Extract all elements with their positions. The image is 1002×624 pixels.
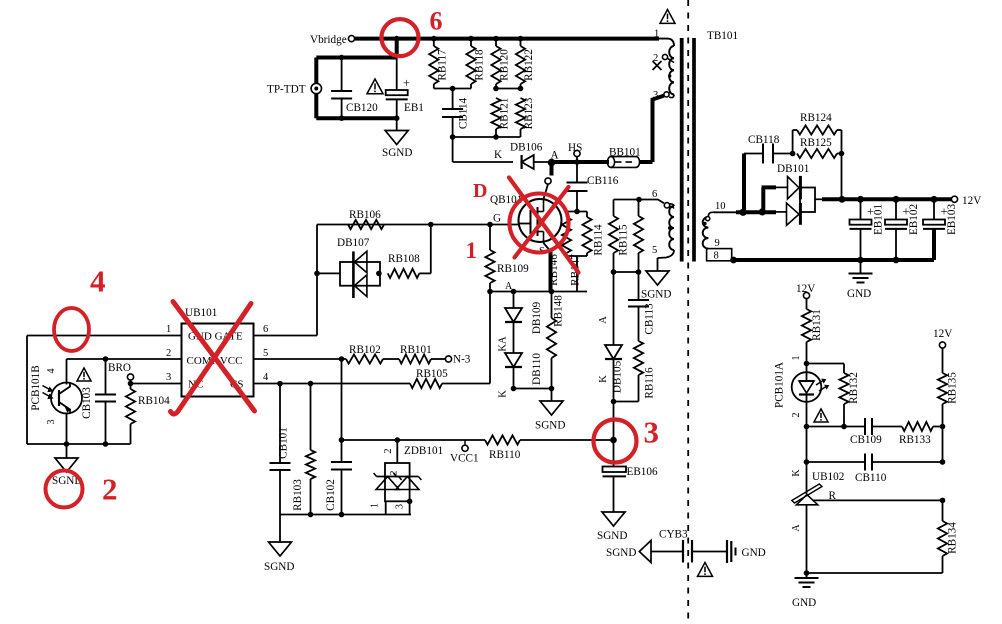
svg-text:RB102: RB102 <box>349 344 381 356</box>
svg-text:6: 6 <box>263 324 268 335</box>
svg-text:RB125: RB125 <box>800 137 832 149</box>
svg-text:RB148: RB148 <box>553 295 565 327</box>
svg-text:RB135: RB135 <box>947 372 959 404</box>
svg-text:VCC1: VCC1 <box>450 453 479 465</box>
svg-text:10: 10 <box>715 201 726 212</box>
svg-text:5: 5 <box>652 245 657 256</box>
svg-text:CB101: CB101 <box>278 427 290 459</box>
svg-text:GND: GND <box>847 288 871 300</box>
svg-text:2: 2 <box>383 449 394 454</box>
svg-text:KA: KA <box>498 336 509 352</box>
svg-text:D: D <box>473 180 487 202</box>
svg-text:2: 2 <box>166 348 171 359</box>
svg-text:EB103: EB103 <box>946 204 958 235</box>
svg-text:RB104: RB104 <box>138 395 170 407</box>
svg-text:2: 2 <box>791 413 802 418</box>
svg-text:RB133: RB133 <box>899 434 931 446</box>
svg-text:RB114: RB114 <box>593 224 605 256</box>
svg-text:DB106: DB106 <box>510 142 543 154</box>
svg-text:DB101: DB101 <box>777 163 809 175</box>
svg-text:EB101: EB101 <box>873 204 885 235</box>
svg-text:CB116: CB116 <box>587 175 619 187</box>
svg-text:DB107: DB107 <box>337 237 370 249</box>
svg-text:SGND: SGND <box>606 547 636 559</box>
svg-text:SGND: SGND <box>597 530 627 542</box>
svg-text:ZDB101: ZDB101 <box>404 445 443 457</box>
svg-text:RB123: RB123 <box>523 97 535 129</box>
svg-text:1: 1 <box>654 29 659 40</box>
svg-text:1: 1 <box>166 324 171 335</box>
svg-text:RB106: RB106 <box>349 209 381 221</box>
svg-text:SGND: SGND <box>264 561 294 573</box>
svg-text:RB134: RB134 <box>947 522 959 554</box>
svg-text:2: 2 <box>102 472 118 507</box>
svg-text:RB110: RB110 <box>489 449 521 461</box>
svg-text:RB117: RB117 <box>436 49 448 81</box>
svg-text:12V: 12V <box>933 328 952 340</box>
svg-text:6: 6 <box>430 7 443 36</box>
svg-text:CB118: CB118 <box>748 134 780 146</box>
svg-text:12V: 12V <box>962 195 981 207</box>
svg-text:DB110: DB110 <box>531 353 543 385</box>
svg-text:1: 1 <box>466 238 478 263</box>
svg-text:4: 4 <box>263 372 269 383</box>
svg-text:K: K <box>498 390 509 398</box>
svg-text:K: K <box>494 149 502 161</box>
svg-text:RB132: RB132 <box>848 372 860 404</box>
svg-text:GND: GND <box>792 597 816 609</box>
svg-text:SGND: SGND <box>382 147 412 159</box>
svg-text:5: 5 <box>263 348 268 359</box>
svg-text:9: 9 <box>715 238 720 249</box>
svg-text:3: 3 <box>46 420 57 425</box>
svg-text:CB114: CB114 <box>458 97 470 129</box>
svg-text:4: 4 <box>46 369 57 374</box>
svg-text:EB106: EB106 <box>627 466 658 478</box>
svg-text:EB102: EB102 <box>908 204 920 235</box>
svg-text:3: 3 <box>166 372 171 383</box>
svg-text:6: 6 <box>652 189 657 200</box>
svg-text:RB103: RB103 <box>292 479 304 511</box>
svg-text:RB101: RB101 <box>400 344 432 356</box>
svg-text:RB122: RB122 <box>523 49 535 81</box>
svg-text:8: 8 <box>714 251 719 262</box>
svg-text:RB109: RB109 <box>497 263 529 275</box>
svg-text:4: 4 <box>90 264 106 299</box>
svg-text:A: A <box>598 316 609 324</box>
svg-text:3: 3 <box>395 504 406 509</box>
svg-text:RB115: RB115 <box>618 224 630 256</box>
svg-text:UB102: UB102 <box>812 471 844 483</box>
svg-text:RB120: RB120 <box>499 49 511 81</box>
svg-text:A: A <box>791 524 802 532</box>
svg-text:SGND: SGND <box>535 420 565 432</box>
svg-text:PCB101A: PCB101A <box>774 362 786 408</box>
svg-text:K: K <box>791 469 802 477</box>
svg-text:CB113: CB113 <box>644 303 656 335</box>
svg-text:+: + <box>403 76 410 90</box>
svg-text:RB118: RB118 <box>474 49 486 81</box>
svg-text:Vbridge: Vbridge <box>310 34 347 46</box>
svg-text:G: G <box>493 213 501 225</box>
svg-text:DB105: DB105 <box>612 360 624 393</box>
svg-text:TP-TDT: TP-TDT <box>267 84 306 96</box>
svg-text:RB108: RB108 <box>388 253 420 265</box>
svg-text:RB116: RB116 <box>644 367 656 399</box>
svg-text:1: 1 <box>791 356 802 361</box>
svg-text:CYB3: CYB3 <box>659 529 688 541</box>
svg-text:A: A <box>505 281 513 292</box>
svg-text:2: 2 <box>390 470 400 475</box>
svg-text:RB105: RB105 <box>416 368 448 380</box>
svg-text:CB120: CB120 <box>346 102 378 114</box>
svg-text:SGND: SGND <box>641 289 671 301</box>
svg-text:UB101: UB101 <box>185 307 217 319</box>
svg-text:CB102: CB102 <box>325 479 337 511</box>
svg-text:BRO: BRO <box>108 362 131 374</box>
svg-text:K: K <box>598 375 609 383</box>
svg-text:RB146: RB146 <box>548 254 560 286</box>
svg-text:1: 1 <box>370 503 381 508</box>
svg-text:EB1: EB1 <box>404 102 424 114</box>
svg-text:TB101: TB101 <box>707 30 738 42</box>
svg-text:GND: GND <box>742 547 766 559</box>
svg-text:3: 3 <box>644 415 660 450</box>
svg-text:CB103: CB103 <box>81 387 93 419</box>
svg-text:RB121: RB121 <box>499 98 511 130</box>
svg-text:DB109: DB109 <box>531 301 543 334</box>
svg-text:RB131: RB131 <box>811 309 823 341</box>
svg-text:RB124: RB124 <box>800 112 832 124</box>
svg-text:CB109: CB109 <box>850 434 882 446</box>
svg-text:PCB101B: PCB101B <box>30 365 42 410</box>
svg-text:N-3: N-3 <box>453 354 471 366</box>
svg-text:CB110: CB110 <box>855 472 887 484</box>
